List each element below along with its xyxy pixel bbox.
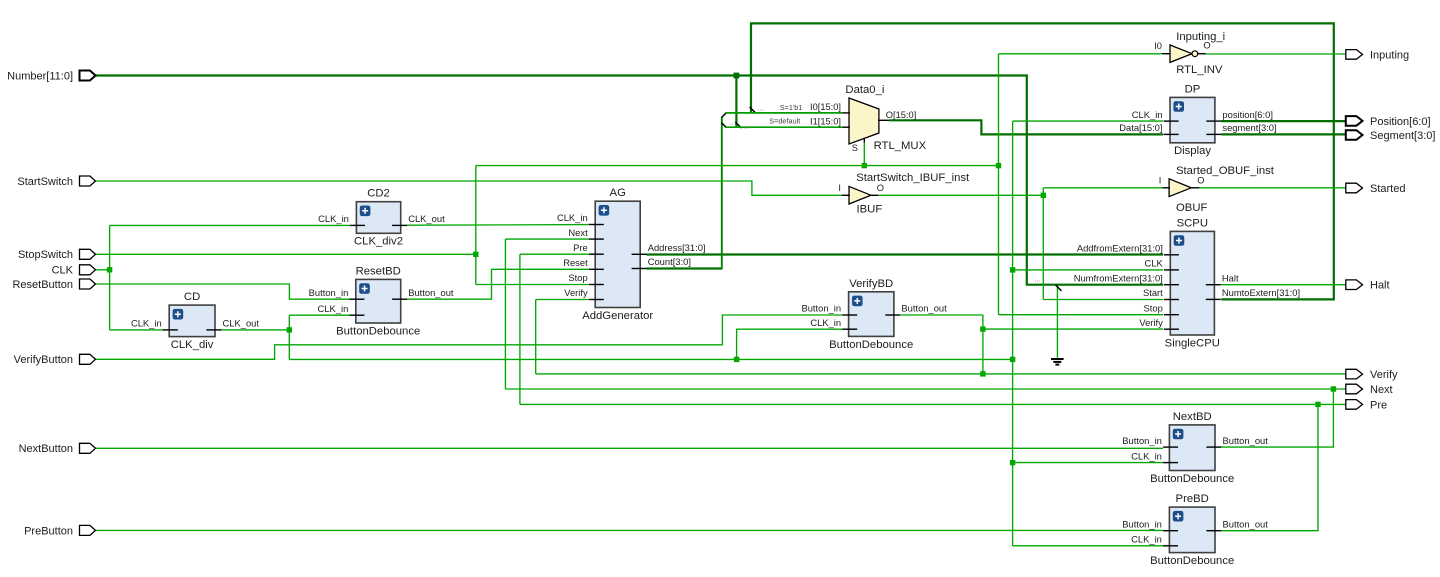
svg-text:NumtoExtern[31:0]: NumtoExtern[31:0] — [1222, 287, 1300, 298]
abbreviation mark near mux I1 left — [730, 117, 737, 126]
bus ripper tick ground tap — [1056, 285, 1062, 291]
svg-text:Verify: Verify — [1139, 317, 1163, 328]
svg-text:StartSwitch_IBUF_inst: StartSwitch_IBUF_inst — [856, 172, 970, 184]
module SCPU (SingleCPU) — [1074, 217, 1300, 349]
svg-text:NumfromExtern[31:0]: NumfromExtern[31:0] — [1074, 272, 1163, 283]
svg-text:CLK_div2: CLK_div2 — [354, 236, 403, 248]
svg-text:RTL_INV: RTL_INV — [1176, 64, 1223, 76]
wire StopSwitch to SCPU Stop — [999, 314, 1164, 316]
wire StopSwitch vertical at x476 — [475, 166, 477, 285]
node CLK corridor junction at VerifyBD — [734, 357, 739, 362]
svg-text:ResetBD: ResetBD — [356, 265, 401, 277]
svg-text:Button_in: Button_in — [1122, 435, 1162, 446]
wire CLK_div net to ResetBD CLK_in — [289, 314, 349, 316]
svg-text:I: I — [838, 183, 841, 193]
input port VerifyButton — [14, 354, 96, 366]
svg-text:Button_in: Button_in — [1122, 518, 1162, 529]
svg-text:SCPU: SCPU — [1177, 217, 1208, 229]
buffer StartSwitch_IBUF_inst (IBUF) — [838, 172, 970, 215]
svg-text:S=default: S=default — [769, 117, 800, 126]
svg-text:Next: Next — [1370, 384, 1393, 396]
input port Number[11:0] — [7, 70, 95, 82]
wire Pre net to AG Pre pin — [520, 253, 589, 255]
svg-text:Count[3:0]: Count[3:0] — [648, 256, 691, 267]
svg-text:AddfromExtern[31:0]: AddfromExtern[31:0] — [1077, 243, 1163, 254]
svg-text:StartSwitch: StartSwitch — [17, 176, 73, 188]
wire mux input I1 feed — [726, 126, 843, 128]
inverter Inputing_i (RTL_INV) — [1154, 31, 1225, 76]
output port Next — [1346, 384, 1393, 396]
svg-text:...: ... — [730, 117, 737, 126]
wire RTL_INV output to Inputing port — [1206, 53, 1346, 55]
svg-text:...: ... — [757, 104, 764, 113]
svg-text:Started: Started — [1370, 183, 1405, 195]
wire CLK port stub to junction — [96, 269, 110, 271]
wire OBUF output to Started port — [1199, 187, 1345, 189]
input port NextButton — [19, 443, 96, 455]
svg-text:VerifyButton: VerifyButton — [14, 354, 73, 366]
svg-text:...: ... — [1034, 274, 1041, 283]
wire NextBD Button_out loop to Next net — [1221, 389, 1333, 447]
bus ripper bevel Count-to-I0 — [721, 113, 726, 118]
buffer Started_OBUF_inst (OBUF) — [1159, 165, 1275, 214]
svg-text:S=1'b1: S=1'b1 — [780, 103, 803, 112]
output port Halt — [1346, 280, 1390, 292]
svg-text:NextBD: NextBD — [1173, 411, 1212, 423]
svg-text:Data[15:0]: Data[15:0] — [1119, 122, 1162, 133]
node Verify net junction at corridor — [980, 371, 985, 376]
svg-text:ButtonDebounce: ButtonDebounce — [1150, 555, 1234, 567]
module CD (CLK_div) — [131, 291, 259, 351]
wire mux input I0 feed — [726, 112, 843, 114]
svg-text:AG: AG — [610, 187, 626, 199]
svg-text:Number[11:0]: Number[11:0] — [7, 70, 73, 82]
wire bus position[6:0] Display to Position port — [1221, 120, 1346, 122]
output port Position[6:0] — [1346, 116, 1431, 128]
svg-text:CLK: CLK — [1145, 258, 1164, 269]
svg-text:Position[6:0]: Position[6:0] — [1370, 116, 1431, 128]
wire Start net to OBUF input — [1043, 187, 1162, 189]
wire bus Number[11:0] from input port to SCPU NumfromExtern — [96, 76, 1164, 285]
svg-text:Pre: Pre — [1370, 399, 1387, 411]
svg-text:Data0_i: Data0_i — [845, 84, 884, 96]
wire Start net to SCPU Start — [1043, 299, 1163, 301]
wire ResetButton port to ResetBD Button_in — [96, 284, 350, 299]
svg-text:AddGenerator: AddGenerator — [582, 310, 653, 322]
wire CLK_div net corridor east — [289, 358, 1012, 360]
svg-text:CLK_in: CLK_in — [131, 318, 162, 329]
mux Data0_i (RTL_MUX) — [769, 84, 926, 153]
svg-text:Inputing: Inputing — [1370, 49, 1409, 61]
module NextBD (ButtonDebounce) — [1122, 411, 1268, 485]
wire mux select S drop — [863, 142, 865, 166]
wire StopSwitch port east — [96, 253, 476, 255]
wire Pre net vertical at x520 — [519, 254, 521, 404]
wire Verify net to AG Verify pin — [536, 299, 589, 301]
svg-text:ButtonDebounce: ButtonDebounce — [336, 325, 420, 337]
output port Pre — [1346, 399, 1387, 411]
wire bus segment[3:0] Display to Segment port — [1221, 133, 1346, 135]
wire bus Count[3:0] from AddGenerator east — [646, 267, 721, 269]
svg-text:CLK_in: CLK_in — [557, 212, 588, 223]
abbreviation mark near mux I1 right — [743, 121, 750, 130]
svg-text:CLK_out: CLK_out — [223, 318, 260, 329]
node CLK port junction — [107, 267, 112, 272]
svg-text:CLK_in: CLK_in — [1131, 450, 1162, 461]
node CLK junction for SCPU — [1010, 267, 1015, 272]
svg-text:CLK_in: CLK_in — [1131, 534, 1162, 545]
module PreBD (ButtonDebounce) — [1122, 493, 1268, 567]
output port Inputing — [1346, 49, 1409, 61]
wire CLK_div net vertical at x289 — [288, 315, 290, 359]
wire Next net corridor to Next port — [505, 388, 1345, 390]
svg-text:I1[15:0]: I1[15:0] — [810, 117, 841, 127]
wire IBUF output east — [878, 194, 1043, 196]
svg-text:Started_OBUF_inst: Started_OBUF_inst — [1176, 165, 1275, 177]
bus ripper bevel Count-to-I1 — [721, 123, 726, 128]
wire VerifyBD Button_out east — [900, 314, 983, 316]
svg-text:Next: Next — [568, 227, 588, 238]
svg-text:NextButton: NextButton — [19, 443, 73, 455]
svg-text:CD: CD — [184, 291, 200, 303]
svg-text:S: S — [852, 143, 858, 153]
wire CLK_div CLK_out to junction — [221, 329, 289, 331]
ground — [1051, 359, 1064, 365]
svg-text:position[6:0]: position[6:0] — [1222, 109, 1273, 120]
wire Verify net vertical to AG Verify — [535, 300, 537, 374]
wire Verify net to SCPU Verify — [983, 328, 1163, 330]
wire CLK_div2 CLK_out to AddGenerator CLK_in — [407, 224, 589, 227]
svg-text:Address[31:0]: Address[31:0] — [648, 242, 706, 253]
svg-text:Reset: Reset — [563, 257, 588, 268]
svg-text:Pre: Pre — [573, 242, 588, 253]
input port StartSwitch — [17, 176, 95, 188]
svg-text:Stop: Stop — [568, 272, 587, 283]
wire CLK_div net to NextBD CLK_in — [1013, 462, 1164, 464]
wire StopSwitch corridor east at y166 — [476, 165, 999, 167]
svg-text:ButtonDebounce: ButtonDebounce — [829, 339, 913, 351]
svg-text:I0: I0 — [1154, 41, 1162, 51]
wire StopSwitch to RTL_INV input — [999, 53, 1162, 55]
svg-text:Inputing_i: Inputing_i — [1176, 31, 1225, 43]
svg-text:...: ... — [743, 121, 750, 130]
node Start net junction — [1041, 193, 1046, 198]
svg-text:CLK: CLK — [52, 265, 74, 277]
wire bus Count[3:0] vertical up to mux inputs — [721, 117, 723, 269]
output port Started — [1346, 183, 1406, 195]
wire SCPU Halt to Halt port — [1221, 284, 1346, 286]
node CLK_div output junction — [287, 327, 292, 332]
module ResetBD (ButtonDebounce) — [309, 265, 454, 337]
abbreviation mark near mux I0 — [757, 104, 764, 113]
svg-text:DP: DP — [1185, 83, 1201, 95]
wire CLK_div net to PreBD CLK_in — [1013, 545, 1164, 547]
svg-text:Button_in: Button_in — [801, 303, 841, 314]
wire Verify net corridor to Verify port — [536, 373, 1346, 375]
svg-text:OBUF: OBUF — [1176, 202, 1207, 214]
svg-text:Display: Display — [1174, 145, 1211, 157]
wire StartSwitch port to IBUF input — [96, 181, 842, 195]
wire Pre net corridor to Pre port — [520, 403, 1346, 405]
output port Verify — [1346, 369, 1398, 381]
svg-text:O[15:0]: O[15:0] — [886, 110, 917, 120]
wire VerifyButton port to VerifyBD Button_in — [96, 315, 843, 359]
node Verify net junction at SCPU row — [980, 326, 985, 331]
wire CLK to CD CLK_in — [110, 329, 163, 331]
svg-text:PreButton: PreButton — [24, 525, 73, 537]
node CLK junction for NextBD — [1010, 460, 1015, 465]
input port PreButton — [24, 525, 95, 537]
input port ResetButton — [12, 279, 95, 291]
wire bus mux output O[15:0] to Display Data[15:0] — [889, 120, 1163, 134]
svg-text:SingleCPU: SingleCPU — [1165, 337, 1220, 349]
wire CLK to CD2 CLK_in — [110, 224, 351, 226]
svg-text:CLK_in: CLK_in — [318, 213, 349, 224]
wire bus Address[31:0] from AddGenerator to SCPU AddfromExtern — [646, 253, 1163, 255]
wire bus Number branch down to mux I1 — [735, 75, 737, 127]
svg-text:RTL_MUX: RTL_MUX — [874, 140, 927, 152]
svg-text:PreBD: PreBD — [1176, 493, 1209, 505]
svg-text:I0[15:0]: I0[15:0] — [810, 102, 841, 112]
wire StopSwitch vertical at x998 — [998, 54, 1000, 315]
input port CLK — [52, 265, 96, 277]
wire ground stem from NumfromExtern bus — [1056, 286, 1058, 358]
svg-text:CLK_in: CLK_in — [1132, 109, 1163, 120]
svg-text:VerifyBD: VerifyBD — [849, 278, 893, 290]
svg-text:O: O — [877, 183, 884, 193]
svg-text:Stop: Stop — [1144, 302, 1163, 313]
node CLK corridor junction at x1013 — [1010, 357, 1015, 362]
svg-text:Start: Start — [1143, 287, 1163, 298]
node Pre net junction — [1315, 402, 1320, 407]
wire PreButton port to PreBD Button_in — [96, 529, 1164, 531]
svg-text:Button_out: Button_out — [1223, 518, 1269, 529]
wire PreBD Button_out loop to Pre net — [1221, 404, 1318, 530]
svg-text:CD2: CD2 — [367, 188, 390, 200]
svg-text:CLK_in: CLK_in — [810, 317, 841, 328]
wire CLK_div net to Display CLK_in — [1013, 120, 1164, 122]
svg-text:Button_in: Button_in — [309, 287, 349, 298]
wire CLK_div net main vertical at x1013 — [1012, 121, 1014, 546]
svg-text:ButtonDebounce: ButtonDebounce — [1150, 473, 1234, 485]
svg-text:ResetButton: ResetButton — [12, 279, 73, 291]
svg-text:CLK_in: CLK_in — [318, 303, 349, 314]
module CD2 (CLK_div2) — [318, 188, 445, 248]
svg-text:Button_out: Button_out — [901, 303, 947, 314]
output port Segment[3:0] — [1346, 130, 1436, 142]
abbreviation mark near ground tap — [1034, 274, 1041, 283]
wire ResetBD Button_out to AG Reset — [407, 269, 589, 299]
wire CLK_div net to SCPU CLK — [1013, 269, 1164, 271]
svg-text:Halt: Halt — [1370, 280, 1390, 292]
svg-text:Halt: Halt — [1222, 272, 1239, 283]
svg-text:CLK_out: CLK_out — [408, 213, 445, 224]
svg-text:CLK_div: CLK_div — [171, 339, 214, 351]
wire Verify net vertical at x983 — [982, 315, 984, 374]
svg-text:segment[3:0]: segment[3:0] — [1222, 122, 1276, 133]
module DP (Display) — [1119, 83, 1276, 157]
node Number bus junction — [734, 73, 740, 79]
wire bus NumtoExtern loop from SCPU output up over the top to mux I0 — [751, 23, 1334, 299]
node mux select junction — [862, 163, 867, 168]
svg-text:Verify: Verify — [1370, 369, 1398, 381]
wire Start net vertical — [1042, 188, 1044, 300]
module VerifyBD (ButtonDebounce) — [801, 278, 947, 351]
svg-text:IBUF: IBUF — [857, 203, 883, 215]
svg-text:StopSwitch: StopSwitch — [18, 249, 73, 261]
wire CLK vertical feeding CLK_div2 and CLK_div — [109, 225, 111, 330]
node StopSwitch junction — [473, 252, 478, 257]
wire Next net vertical at x505 — [504, 239, 506, 389]
wire NextButton port to NextBD Button_in — [96, 447, 1164, 449]
wire CLK_div net branch to VerifyBD CLK_in — [737, 329, 843, 359]
svg-text:Segment[3:0]: Segment[3:0] — [1370, 130, 1435, 142]
svg-text:Button_out: Button_out — [408, 287, 454, 298]
bus ripper tick NumtoExtern-to-I0 — [750, 107, 756, 113]
svg-text:Verify: Verify — [564, 287, 588, 298]
node StopSwitch corridor junction — [996, 163, 1001, 168]
wire StopSwitch to AG Stop — [476, 284, 589, 286]
wire Next net to AG Next pin — [505, 238, 589, 240]
node Next net junction — [1331, 386, 1336, 391]
input port StopSwitch — [18, 249, 96, 261]
svg-text:Button_out: Button_out — [1223, 435, 1269, 446]
module AG (AddGenerator) — [557, 187, 706, 322]
bus ripper tick Number-to-I1 — [735, 122, 741, 128]
svg-text:I: I — [1159, 175, 1162, 185]
